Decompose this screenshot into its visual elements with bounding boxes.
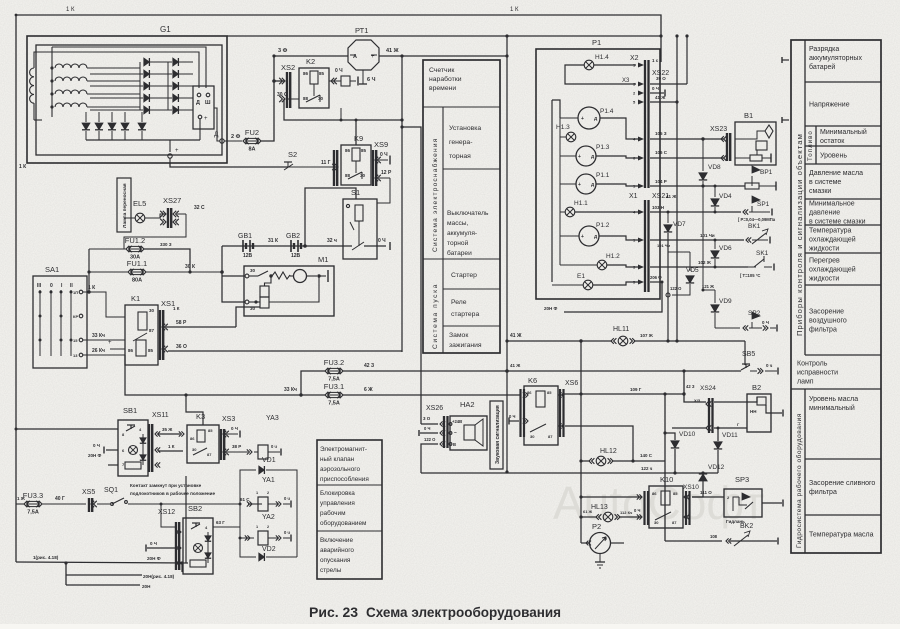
B1 float diamond xyxy=(765,125,773,138)
wire FU3.1 out 6 Ж to K6 xyxy=(343,394,521,396)
cell: Реле стартера xyxy=(443,325,500,327)
svg-text:101 Чи: 101 Чи xyxy=(700,233,715,238)
wire left bus to SB1 top xyxy=(16,428,118,430)
svg-text:+: + xyxy=(108,340,112,346)
table row: Контроль исправности ламп xyxy=(791,388,881,390)
wire 42 З drop to XS24 xyxy=(683,371,685,394)
lamp E1 xyxy=(583,280,593,290)
svg-text:85: 85 xyxy=(319,71,325,76)
svg-text:+: + xyxy=(175,148,179,154)
svg-text:КР: КР xyxy=(73,314,78,319)
wire FU3.2 feed xyxy=(301,371,325,395)
wire 206 Ф bottom of strip xyxy=(650,281,662,283)
svg-text:РТ1: РТ1 xyxy=(355,26,368,35)
legend vertical: sound signal xyxy=(490,401,503,469)
svg-text:15: 15 xyxy=(73,338,78,343)
P1 gauge leads to strip rows xyxy=(600,118,638,139)
svg-text:S2: S2 xyxy=(288,150,297,159)
svg-text:FU3.3: FU3.3 xyxy=(23,491,43,500)
svg-text:HL13: HL13 xyxy=(591,504,608,511)
portable lamp legend box xyxy=(117,178,131,232)
wire FU3.2 out 42 З to SB5 row xyxy=(343,370,684,372)
svg-text:1: 1 xyxy=(256,525,258,529)
K3 right leads xyxy=(227,433,238,435)
svg-text:Система электроснабжения: Система электроснабжения xyxy=(431,137,439,252)
svg-text:33 Кч: 33 Кч xyxy=(92,333,105,339)
svg-text:Счетчик: Счетчик xyxy=(429,67,454,74)
svg-text:0 ч: 0 ч xyxy=(284,530,290,535)
wire from G1 D to fuse FU2 xyxy=(224,140,242,142)
svg-text:торная: торная xyxy=(449,153,471,160)
PT1 ground lead xyxy=(362,70,364,84)
svg-text:XS24: XS24 xyxy=(700,385,716,392)
svg-text:63 Г: 63 Г xyxy=(216,520,225,525)
strip pin arrows xyxy=(638,63,644,68)
svg-text:батареи: батареи xyxy=(447,249,472,257)
wire EL5 left drop xyxy=(124,217,135,219)
svg-text:Топливо: Топливо xyxy=(807,130,814,161)
svg-text:121 Ж: 121 Ж xyxy=(702,284,714,289)
svg-text:41 Ж: 41 Ж xyxy=(386,48,399,54)
node battery bus xyxy=(220,270,224,274)
svg-text:P1.1: P1.1 xyxy=(596,172,610,179)
connector XS9 right bars xyxy=(372,150,374,186)
table row: Давление масла в системе смазки xyxy=(805,198,881,200)
svg-text:122 ч: 122 ч xyxy=(641,466,653,471)
svg-text:XS9: XS9 xyxy=(374,140,388,149)
table row: Напряжение xyxy=(805,125,881,127)
svg-text:XS11: XS11 xyxy=(152,412,169,419)
svg-text:Засорение: Засорение xyxy=(809,309,844,316)
G1 bottom bus xyxy=(86,139,200,141)
SB2 internal diodes xyxy=(205,536,211,541)
svg-text:20Н: 20Н xyxy=(142,584,151,589)
bus x507 vertical xyxy=(506,36,508,472)
svg-text:86: 86 xyxy=(303,71,309,76)
wire 20Н bottom row xyxy=(66,584,140,586)
K1 top feed from SA1 xyxy=(106,292,125,317)
svg-text:3 Ф: 3 Ф xyxy=(278,48,288,54)
svg-text:в системе: в системе xyxy=(809,179,841,186)
svg-text:XS5: XS5 xyxy=(82,489,95,496)
wire 61 C drop to SB2 xyxy=(161,504,176,527)
relay K1 xyxy=(125,305,158,365)
svg-text:BK1: BK1 xyxy=(748,223,761,230)
svg-text:30: 30 xyxy=(530,434,535,439)
table row: Температура охлаждающей жидкости xyxy=(805,252,881,254)
table row: Уровень масла минимальный xyxy=(805,458,881,460)
G1 plus node xyxy=(199,119,201,140)
B2 right lead xyxy=(766,405,782,413)
svg-text:E1: E1 xyxy=(577,273,585,280)
svg-text:Рис. 23: Рис. 23 xyxy=(309,604,358,620)
svg-text:0 Ч: 0 Ч xyxy=(652,86,659,91)
svg-text:330 З: 330 З xyxy=(160,242,172,247)
S1 top feed xyxy=(305,188,356,246)
M1 motor xyxy=(294,270,307,283)
wire XS2 feed xyxy=(274,80,284,82)
svg-text:H1.4: H1.4 xyxy=(595,54,609,61)
fuse FU3.2 7.5A xyxy=(325,368,328,374)
G1 winding to rectifier links xyxy=(87,67,140,69)
svg-text:+24В: +24В xyxy=(452,419,462,424)
svg-text:остаток: остаток xyxy=(820,138,845,145)
connector XS9 left bars xyxy=(333,150,335,186)
wire 101 to BK1 xyxy=(650,239,744,241)
svg-text:Электромагнит-: Электромагнит- xyxy=(320,446,367,453)
S1 right lead 0 Ч xyxy=(364,245,386,247)
svg-text:XS23: XS23 xyxy=(710,126,727,133)
svg-text:HL12: HL12 xyxy=(600,448,617,455)
wire K10 86 row xyxy=(581,496,642,498)
table stub at Разрядка row xyxy=(782,59,789,61)
wire FU2 to K2 branch xyxy=(261,56,274,141)
bus x677 vertical xyxy=(676,36,678,341)
P2 ground xyxy=(599,554,601,563)
svg-text:B1: B1 xyxy=(744,111,753,120)
B1 resistor xyxy=(756,141,767,150)
svg-text:XS10: XS10 xyxy=(683,484,699,491)
svg-text:в системе смазки: в системе смазки xyxy=(809,219,866,226)
svg-text:85: 85 xyxy=(148,348,154,353)
svg-text:VD6: VD6 xyxy=(719,245,732,252)
svg-text:11 Г: 11 Г xyxy=(321,160,331,166)
wire HL11 to SB5 drop xyxy=(744,341,746,365)
svg-text:НН: НН xyxy=(750,409,757,414)
svg-text:105 З: 105 З xyxy=(655,131,667,136)
H1.4 loop wire xyxy=(565,65,636,84)
wire FU1.1 down-left join xyxy=(88,249,90,272)
svg-text:XS6: XS6 xyxy=(565,380,578,387)
lamp EL5 xyxy=(135,213,145,223)
wire 40 Г xyxy=(42,503,86,505)
svg-text:P1.4: P1.4 xyxy=(600,108,614,115)
svg-text:Минимальное: Минимальное xyxy=(809,201,855,208)
XS26 low pin 122 О xyxy=(421,444,438,473)
wire 1 К к K3 xyxy=(158,450,183,452)
svg-text:0 Ч: 0 Ч xyxy=(335,68,343,74)
lamp H1.3 xyxy=(566,132,576,142)
wire EL5 to XS27 xyxy=(145,214,166,218)
svg-text:2: 2 xyxy=(267,525,269,529)
svg-text:аэрозольного: аэрозольного xyxy=(320,466,360,473)
connector XS1 xyxy=(159,310,161,360)
svg-text:Включение: Включение xyxy=(320,537,353,544)
svg-text:GB1: GB1 xyxy=(238,233,252,240)
svg-text:H1.2: H1.2 xyxy=(606,253,620,260)
svg-text:SB5: SB5 xyxy=(742,351,755,358)
G1 bottom diodes xyxy=(85,112,87,122)
svg-text:VD8: VD8 xyxy=(708,164,721,171)
svg-text:охлаждающей: охлаждающей xyxy=(809,236,856,244)
connector XS3 xyxy=(220,429,222,460)
svg-text:0 Ч: 0 Ч xyxy=(424,426,430,431)
wire 1Ж left entry xyxy=(16,503,24,505)
svg-text:6 Ч: 6 Ч xyxy=(367,77,376,83)
svg-text:K10: K10 xyxy=(660,475,673,484)
svg-text:GB2: GB2 xyxy=(286,233,300,240)
G1 field coils xyxy=(55,64,87,68)
svg-text:61 Ж: 61 Ж xyxy=(583,509,593,514)
svg-text:EL5: EL5 xyxy=(133,199,146,208)
svg-text:0: 0 xyxy=(50,283,53,289)
control unit SB2 box xyxy=(183,518,213,574)
svg-text:+: + xyxy=(581,234,584,240)
node top-left xyxy=(15,14,18,17)
fuse FU2 8A xyxy=(243,138,246,144)
svg-text:охлаждающей: охлаждающей xyxy=(809,266,856,274)
starter M1 box xyxy=(244,266,334,316)
SA1 wire 26 Kch xyxy=(83,354,125,356)
relay K9 xyxy=(341,145,371,185)
SB1 right wires xyxy=(158,433,180,435)
fuel sub-strip divider xyxy=(815,126,817,164)
svg-text:103 Н: 103 Н xyxy=(652,205,664,210)
connector XS6 bars right xyxy=(559,389,561,437)
svg-text:87: 87 xyxy=(672,520,677,525)
svg-text:3 О: 3 О xyxy=(423,416,431,421)
bus x665 vertical xyxy=(664,394,666,541)
wire SQ1 to right 61 C xyxy=(128,503,240,505)
svg-text:0 Ч: 0 Ч xyxy=(509,414,515,419)
svg-text:K3: K3 xyxy=(196,412,205,421)
svg-text:58 Р: 58 Р xyxy=(176,320,187,326)
svg-text:XS3: XS3 xyxy=(222,416,235,423)
center legend column frame xyxy=(423,60,500,353)
svg-text:FU3.2: FU3.2 xyxy=(324,358,344,367)
svg-text:X3: X3 xyxy=(622,78,630,84)
generator G1 inner box xyxy=(36,45,222,155)
svg-text:102 Ж: 102 Ж xyxy=(698,260,712,265)
svg-text:+: + xyxy=(204,116,208,122)
M1 contact 30 xyxy=(245,274,249,278)
G1 coil feed vertical xyxy=(51,47,53,117)
wire 104 Р to BP1 xyxy=(650,185,745,187)
fuse FU3.3 7.5A xyxy=(24,501,27,507)
G1 top feed to D pin xyxy=(34,52,199,88)
svg-text:87: 87 xyxy=(207,452,212,457)
divider: electrical / starting system xyxy=(423,258,443,260)
wire 122 ч row xyxy=(421,472,718,474)
XS26 mid pin 0 Ч xyxy=(420,432,438,434)
M1 retract loop xyxy=(269,276,319,302)
svg-text:Ш: Ш xyxy=(205,100,211,106)
wire 33 Кч bus from SA1 xyxy=(125,355,325,395)
svg-text:VD2: VD2 xyxy=(262,546,276,553)
svg-text:опускания: опускания xyxy=(320,557,351,564)
svg-text:K6: K6 xyxy=(528,376,537,385)
svg-text:G1: G1 xyxy=(160,25,171,34)
svg-text:зажигания: зажигания xyxy=(449,342,482,349)
svg-text:86: 86 xyxy=(652,491,657,496)
SB2 bottom pin drop xyxy=(181,563,183,572)
svg-text:генера-: генера- xyxy=(449,139,472,146)
table row: Перегрев охлаждающей жидкости xyxy=(805,284,881,286)
svg-text:B2: B2 xyxy=(752,383,761,392)
svg-text:20Н Ф: 20Н Ф xyxy=(88,453,102,458)
svg-text:батарей: батарей xyxy=(809,63,835,71)
svg-text:VD5: VD5 xyxy=(686,267,699,274)
svg-text:31 К: 31 К xyxy=(268,238,279,244)
table row: Засорение воздушного фильтра xyxy=(805,354,881,356)
relay K2 xyxy=(299,68,329,108)
node circle on x668 xyxy=(666,293,670,297)
SB1 box bottom drop xyxy=(185,476,187,563)
svg-text:1: 1 xyxy=(256,491,258,495)
svg-text:101 Чи: 101 Чи xyxy=(657,243,671,248)
svg-text:Д: Д xyxy=(196,100,200,106)
S1 internal arrow xyxy=(350,222,354,230)
svg-text:+: + xyxy=(578,154,581,160)
svg-text:108: 108 xyxy=(710,534,718,539)
svg-text:SP3: SP3 xyxy=(735,475,749,484)
svg-text:XS27: XS27 xyxy=(163,196,181,205)
svg-text:Напряжение: Напряжение xyxy=(809,102,850,109)
K6 left lead 0Ч xyxy=(509,420,519,422)
lamp H1.4 xyxy=(584,60,594,70)
svg-text:26 Кч: 26 Кч xyxy=(92,348,105,354)
svg-text:80А: 80А xyxy=(132,278,142,284)
legend box: solenoid valve / lock / emergency lowering xyxy=(317,440,382,579)
wire 20Н Ф stub xyxy=(564,282,662,312)
generator G1 outer box xyxy=(27,36,227,163)
G1 output D wire xyxy=(214,108,220,141)
svg-text:32 ч: 32 ч xyxy=(327,238,337,244)
svg-text:XS26: XS26 xyxy=(426,405,443,412)
svg-text:38 Р: 38 Р xyxy=(232,444,241,449)
relay K3 xyxy=(187,425,219,463)
svg-text:6 Ж: 6 Ж xyxy=(364,387,373,393)
svg-text:41 Ж: 41 Ж xyxy=(655,95,666,100)
svg-text:42 З: 42 З xyxy=(364,363,374,369)
svg-text:41 Ж: 41 Ж xyxy=(666,194,677,199)
svg-text:106 С: 106 С xyxy=(655,150,668,155)
svg-text:30: 30 xyxy=(192,447,197,452)
lamp H1.1 xyxy=(565,207,575,217)
B1 rheostat bottom xyxy=(750,155,762,161)
svg-text:массы,: массы, xyxy=(447,220,469,227)
svg-text:33 Кч: 33 Кч xyxy=(284,387,297,393)
cell: Счетчик наработки времени xyxy=(423,106,500,108)
svg-text:смазки: смазки xyxy=(809,188,831,195)
svg-text:111 О: 111 О xyxy=(700,490,712,495)
svg-text:BP1: BP1 xyxy=(760,169,773,176)
table stub at Напряжение row xyxy=(782,119,789,121)
svg-text:SB1: SB1 xyxy=(123,406,137,415)
connector XS23 xyxy=(726,133,728,161)
wire 1K top bus xyxy=(16,15,661,504)
gauge P1.3 xyxy=(576,146,596,166)
HA2 pins xyxy=(449,423,452,426)
svg-text:X2: X2 xyxy=(630,55,639,62)
G1 diode matrix column 1 xyxy=(144,58,150,66)
svg-text:P2: P2 xyxy=(592,522,601,531)
svg-text:XS2: XS2 xyxy=(281,63,295,72)
bottom-left exit wires xyxy=(15,504,17,562)
svg-text:управления: управления xyxy=(320,500,355,507)
table row: Уровень xyxy=(805,163,881,165)
svg-text:[ Р=0,04—0,09МПа: [ Р=0,04—0,09МПа xyxy=(738,217,776,222)
svg-text:104 Р: 104 Р xyxy=(655,179,667,184)
svg-text:85: 85 xyxy=(361,148,367,153)
svg-text:87: 87 xyxy=(548,434,553,439)
svg-text:M1: M1 xyxy=(318,255,328,264)
svg-text:30: 30 xyxy=(149,308,155,313)
K1 right leads xyxy=(166,326,236,328)
SA1 wire 1K out xyxy=(83,292,106,305)
svg-text:Гидросистема рабочего оборуд: Гидросистема рабочего оборудования xyxy=(795,413,803,548)
svg-text:20Н Ф: 20Н Ф xyxy=(147,556,161,561)
relay K6 xyxy=(524,386,558,445)
svg-text:жидкости: жидкости xyxy=(809,276,839,283)
svg-text:Установка: Установка xyxy=(449,125,481,132)
gauge P1.4 xyxy=(578,107,600,129)
svg-text:рабочим: рабочим xyxy=(320,509,345,517)
svg-text:30: 30 xyxy=(250,268,256,273)
svg-text:88: 88 xyxy=(345,173,351,178)
cell: Стартер xyxy=(443,288,500,290)
svg-text:FU3.1: FU3.1 xyxy=(324,382,344,391)
connector XS26 xyxy=(443,416,445,448)
svg-text:аккумуля-: аккумуля- xyxy=(447,230,477,237)
svg-text:12 Р: 12 Р xyxy=(381,170,392,176)
svg-text:0 Ч: 0 Ч xyxy=(231,426,238,431)
svg-text:VD12: VD12 xyxy=(708,464,725,471)
svg-text:12В: 12В xyxy=(291,253,301,259)
svg-text:времени: времени xyxy=(429,85,456,92)
svg-text:Р1: Р1 xyxy=(592,38,601,47)
svg-text:Д: Д xyxy=(214,131,219,138)
svg-text:Реле: Реле xyxy=(451,299,467,306)
wire K3 feed from bus xyxy=(186,395,203,425)
svg-text:Д: Д xyxy=(604,535,607,540)
svg-text:1 К: 1 К xyxy=(173,306,180,311)
SA1 terminals xyxy=(79,290,83,294)
connector XS11 xyxy=(148,424,150,472)
gauge P1.1 xyxy=(576,174,596,194)
connector K10 bars left xyxy=(643,491,645,525)
svg-text:30: 30 xyxy=(654,520,659,525)
battery GB2 12V xyxy=(290,240,292,252)
svg-text:87: 87 xyxy=(149,328,155,333)
svg-text:35 Ж: 35 Ж xyxy=(162,427,173,432)
svg-text:1 К: 1 К xyxy=(168,444,175,449)
wire 109 Г K6 to XS24 xyxy=(562,393,684,395)
wire 58Р to M1 solenoid xyxy=(236,307,260,327)
connector X2 XS22 bars xyxy=(644,60,646,188)
svg-text:Выключатель: Выключатель xyxy=(447,210,489,217)
G1 diode matrix column 2 xyxy=(173,58,179,66)
svg-text:Х/З: Х/З xyxy=(694,398,701,403)
svg-text:61 С: 61 С xyxy=(240,497,250,502)
svg-text:32 С: 32 С xyxy=(194,205,205,211)
wire XS27 right 32 C xyxy=(177,213,186,215)
right table frame: instrument/indicator legend xyxy=(791,40,881,553)
svg-text:FU1.2: FU1.2 xyxy=(125,236,145,245)
bus x581 vertical xyxy=(580,341,582,543)
hour-meter PT1 octagon xyxy=(348,40,379,70)
svg-text:0 Ч: 0 Ч xyxy=(378,238,386,244)
wire 106 С to B1 xyxy=(650,157,724,159)
svg-text:VD1: VD1 xyxy=(262,457,276,464)
svg-text:0 Ч: 0 Ч xyxy=(93,443,100,448)
svg-text:Контроль: Контроль xyxy=(797,361,828,368)
wire 36 О K1 to x402 xyxy=(168,350,402,352)
connector X1 XS21 bars xyxy=(644,200,646,292)
svg-text:X1: X1 xyxy=(629,193,638,200)
wire K9 top to bus xyxy=(355,120,357,145)
fuel gauge unit B1 box xyxy=(735,122,776,165)
